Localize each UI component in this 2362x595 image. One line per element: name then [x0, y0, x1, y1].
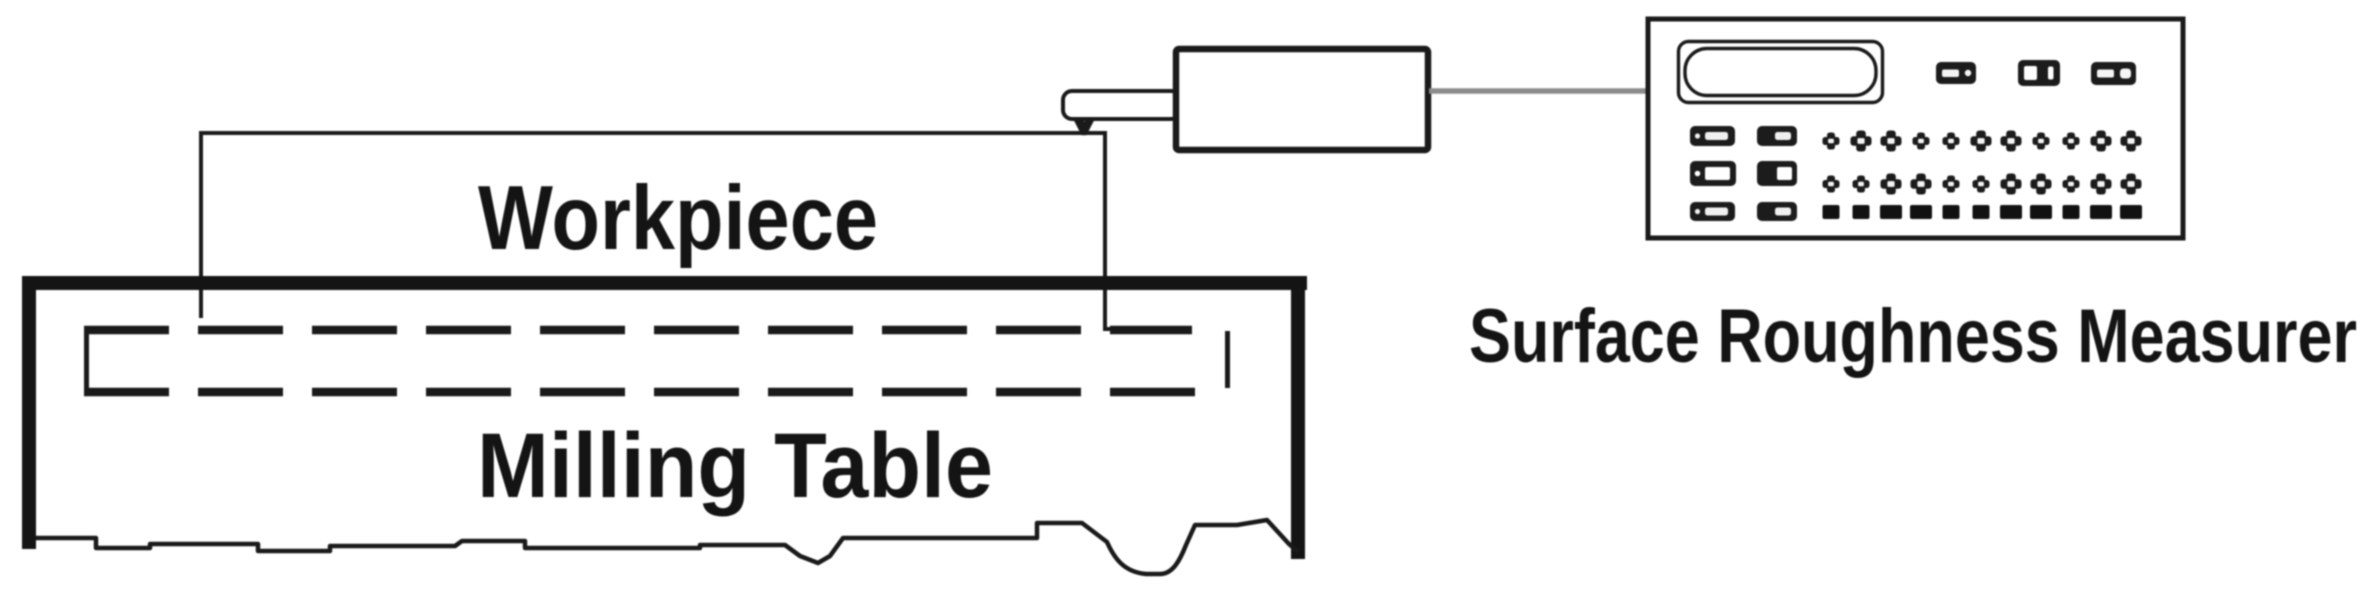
left button r1c1 [1690, 126, 1735, 146]
svg-text:Surface Roughness Measurer: Surface Roughness Measurer [1469, 294, 2357, 379]
probe body [1176, 49, 1428, 150]
top button A [1936, 62, 1976, 84]
t-slot end tick [1225, 331, 1230, 388]
cable to measurer [1429, 88, 1648, 94]
workpiece box [199, 131, 1192, 329]
milling table right border [1291, 276, 1305, 559]
top button B [2018, 60, 2060, 86]
probe arm [1063, 91, 1180, 119]
measurer box [1648, 19, 2183, 238]
display outer [1679, 42, 1883, 103]
t-slot bottom dashed line [84, 388, 1199, 397]
left button r3c1 [1690, 202, 1735, 221]
left button r2c1 [1690, 161, 1736, 186]
keypad row 2 crosses [1823, 174, 2142, 195]
svg-text:Milling Table: Milling Table [477, 415, 993, 517]
top button C [2091, 62, 2136, 85]
keypad dash row [1823, 205, 2143, 219]
milling table left border [22, 276, 36, 549]
probe tip [1074, 119, 1094, 135]
left button r3c2 [1757, 202, 1797, 221]
keypad row 1 crosses [1823, 131, 2142, 152]
left button r2c2 [1757, 161, 1797, 186]
milling table top border [22, 276, 1307, 290]
display inner [1685, 49, 1876, 96]
t-slot left bracket [84, 326, 89, 396]
table bottom wavy break line [36, 520, 1298, 574]
left button r1c2 [1757, 126, 1797, 146]
t-slot top dashed line [84, 326, 1192, 335]
svg-text:Workpiece: Workpiece [478, 168, 878, 269]
